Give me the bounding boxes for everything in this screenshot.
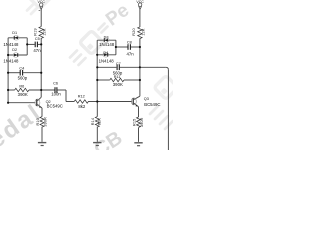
svg-text:1N4148: 1N4148 bbox=[3, 58, 19, 63]
svg-text:R19: R19 bbox=[33, 28, 37, 35]
svg-text:390K: 390K bbox=[18, 92, 28, 97]
svg-text:1N4148: 1N4148 bbox=[99, 58, 115, 63]
svg-text:390R: 390R bbox=[140, 117, 144, 127]
svg-text:R6: R6 bbox=[19, 85, 24, 89]
svg-text:R11: R11 bbox=[114, 75, 121, 79]
svg-text:C5: C5 bbox=[35, 37, 40, 41]
svg-text:VCC: VCC bbox=[38, 0, 46, 4]
svg-text:VCC: VCC bbox=[136, 0, 144, 4]
svg-text:12K: 12K bbox=[43, 28, 47, 36]
svg-text:8k2: 8k2 bbox=[78, 104, 86, 109]
svg-text:47n: 47n bbox=[127, 52, 135, 57]
svg-text:R14: R14 bbox=[91, 118, 95, 125]
svg-text:C6: C6 bbox=[53, 82, 58, 86]
svg-text:390K: 390K bbox=[113, 82, 123, 87]
svg-text:100n: 100n bbox=[51, 92, 61, 97]
svg-text:D3: D3 bbox=[104, 35, 109, 39]
svg-text:1N4148: 1N4148 bbox=[99, 42, 115, 47]
svg-text:R15: R15 bbox=[133, 119, 137, 126]
svg-text:D4: D4 bbox=[103, 51, 108, 55]
svg-text:12K: 12K bbox=[142, 28, 146, 36]
svg-text:R10: R10 bbox=[36, 118, 40, 125]
svg-text:Q3: Q3 bbox=[144, 97, 149, 101]
svg-text:R12: R12 bbox=[78, 95, 85, 99]
svg-text:D2: D2 bbox=[12, 48, 17, 52]
svg-text:C7: C7 bbox=[116, 62, 121, 66]
svg-text:C4: C4 bbox=[19, 66, 24, 70]
svg-text:C8: C8 bbox=[127, 40, 132, 44]
svg-text:1N4148: 1N4148 bbox=[3, 42, 19, 47]
svg-text:D1: D1 bbox=[12, 31, 17, 35]
svg-text:560p: 560p bbox=[18, 75, 28, 80]
svg-text:82K: 82K bbox=[98, 118, 102, 126]
svg-text:390R: 390R bbox=[43, 117, 47, 127]
svg-text:BC549C: BC549C bbox=[47, 104, 63, 109]
svg-text:BC549C: BC549C bbox=[144, 102, 160, 107]
svg-text:R20: R20 bbox=[132, 28, 136, 35]
svg-text:47n: 47n bbox=[33, 48, 41, 53]
